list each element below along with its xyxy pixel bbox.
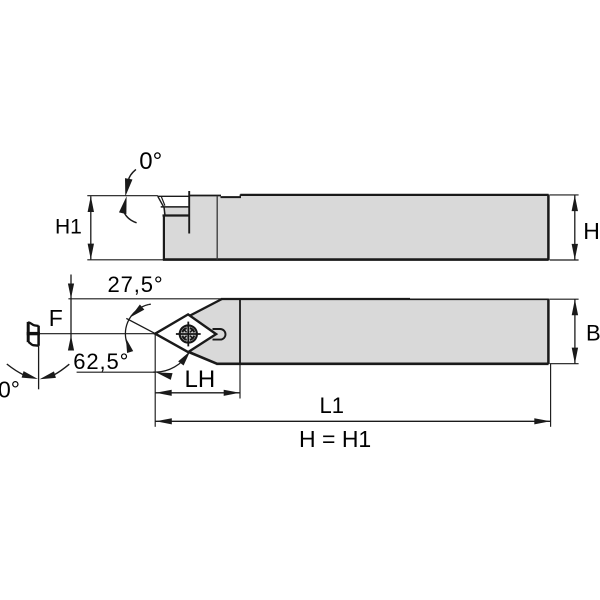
arc arrowhead at tip reference line <box>126 338 133 353</box>
dimension H extension lines <box>550 194 579 196</box>
top view: clamp slot rounded end <box>213 329 226 340</box>
dimension L1 extension line at right <box>550 364 552 427</box>
side view: body top edge (main) <box>240 194 548 196</box>
rake angle callout arrows <box>128 169 136 180</box>
62,5 deg reference underline <box>77 371 156 373</box>
top view: head parting line <box>239 299 241 364</box>
insert cross-section icon (F reference) <box>27 322 40 346</box>
side view: head parting line <box>216 196 218 260</box>
side view: insert side face (white) <box>158 196 189 207</box>
svg-text:0°: 0° <box>139 148 162 175</box>
dimension LH line with arrows <box>155 392 240 394</box>
side view: tool body shank (gray fill) <box>164 195 549 260</box>
top view: body top edge (thick part) <box>221 298 410 300</box>
top view: nose bottom chamfer edge <box>189 352 218 364</box>
inclination 0 deg arrows <box>7 364 24 375</box>
dimension L1 line with arrows <box>156 420 551 422</box>
dimension H1 line with arrows <box>90 196 92 259</box>
side view: body right edge <box>547 195 550 261</box>
side view: body top edge (recessed step) <box>221 196 242 198</box>
insert screw head <box>176 322 201 347</box>
angle arc for 27,5 deg <box>125 304 148 350</box>
top view: body right edge <box>547 299 550 364</box>
side view: body left edge <box>163 215 165 260</box>
dimension H line with arrows <box>574 195 576 260</box>
side view: body bottom edge <box>163 258 549 261</box>
top view: nose top chamfer edge <box>155 299 222 334</box>
tip reference line (F line) <box>40 333 156 335</box>
svg-text:L1: L1 <box>320 393 344 418</box>
angle arc for 62,5 deg <box>153 351 189 372</box>
svg-text:LH: LH <box>185 366 216 393</box>
side view: shim bottom line <box>163 214 191 216</box>
top view: tool body (gray fill) <box>155 299 548 364</box>
side view: pocket back line <box>188 191 190 234</box>
side view: insert top edge <box>158 195 189 197</box>
side view: pocket top edge <box>189 195 221 197</box>
top view: body bottom edge <box>217 362 549 365</box>
svg-text:H = H1: H = H1 <box>299 426 371 452</box>
inclination 0 deg reference line <box>38 346 40 390</box>
dimension LH extension line at tip <box>154 334 156 427</box>
svg-text:B: B <box>586 321 600 346</box>
top view: diamond insert (white) <box>155 314 216 352</box>
dimension H1 extension lines <box>87 195 158 197</box>
dimension LH extension line at head <box>239 364 241 399</box>
dimension B line with arrows <box>574 299 576 363</box>
top view: body top edge (thin part) <box>410 298 549 300</box>
cutting edge extension line <box>126 318 155 333</box>
svg-text:F: F <box>49 305 63 331</box>
side view: insert bottom / shim top line <box>161 206 190 208</box>
side view: insert left chamfer lines <box>158 196 164 207</box>
svg-text:0°: 0° <box>0 376 20 402</box>
svg-text:H: H <box>583 218 600 244</box>
svg-text:27,5°: 27,5° <box>108 272 164 297</box>
arc arrowhead at cutting edge extension <box>130 304 144 317</box>
svg-text:H1: H1 <box>55 215 82 238</box>
dimension B extension lines <box>550 298 579 300</box>
side view: step riser <box>239 195 241 198</box>
top edge reference line (extension to the left) <box>68 298 221 300</box>
dimension F line <box>70 275 72 346</box>
svg-text:62,5°: 62,5° <box>73 349 129 374</box>
